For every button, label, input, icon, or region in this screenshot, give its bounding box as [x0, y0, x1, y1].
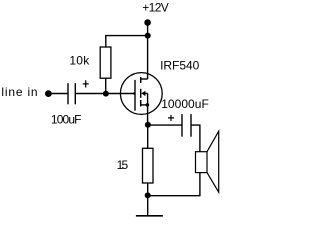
- speaker LS1 cone: [207, 131, 219, 192]
- Q1 gate bar: [134, 80, 136, 111]
- resistor R1 10k body: [100, 47, 111, 78]
- svg-text:line in: line in: [1, 85, 37, 99]
- Q1 drain stub: [141, 78, 148, 80]
- Q1 source-body junction dot: [146, 103, 150, 107]
- junction rail node: [145, 33, 151, 39]
- wire R1 bottom to gate node: [105, 78, 107, 93]
- junction gate node: [103, 91, 109, 97]
- junction output node: [145, 122, 151, 128]
- junction ground node: [145, 192, 151, 198]
- speaker LS1 box: [196, 152, 208, 173]
- svg-text:+12V: +12V: [142, 0, 169, 14]
- svg-text:10000uF: 10000uF: [161, 97, 209, 111]
- input terminal dot: [45, 90, 52, 97]
- Q1 body to source link: [147, 93, 149, 105]
- Q1 channel segment source: [140, 100, 142, 107]
- svg-text:IRF540: IRF540: [160, 59, 200, 73]
- Q1 body arrow: [141, 91, 145, 96]
- capacitor C2 left plate: [181, 114, 183, 137]
- wire drain from rail: [147, 36, 149, 79]
- wire R2 to ground node: [147, 183, 149, 195]
- wire source down to output node: [147, 105, 149, 125]
- resistor R2 15 body: [143, 148, 154, 183]
- supply terminal dot: [144, 19, 151, 26]
- wire ground stem: [147, 195, 149, 215]
- transistor Q1 IRF540 body circle: [120, 73, 162, 115]
- wire output node to R2: [147, 125, 149, 148]
- ground bar: [136, 215, 163, 217]
- wire output node to C2: [148, 124, 182, 126]
- wire rail corner down to R1: [105, 35, 107, 47]
- Q1 gate arrowhead: [132, 92, 135, 96]
- Q1 body lead: [145, 92, 148, 94]
- wire speaker bottom return: [148, 173, 200, 196]
- Q1 channel segment body: [140, 89, 142, 98]
- svg-text:100uF: 100uF: [51, 113, 82, 127]
- svg-text:15: 15: [117, 158, 129, 172]
- capacitor C2 right plate: [190, 114, 192, 137]
- wire C1 to gate: [75, 93, 134, 95]
- C2 polarity plus: [168, 115, 174, 121]
- capacitor C1 right plate: [74, 83, 76, 104]
- Q1 source stub: [141, 104, 148, 106]
- wire input terminal to C1: [48, 93, 67, 95]
- svg-text:10k: 10k: [69, 54, 90, 68]
- wire supply terminal to rail junction: [147, 23, 149, 36]
- wire C2 to speaker top: [191, 125, 200, 152]
- Q1 channel segment drain: [140, 77, 142, 83]
- capacitor C1 left plate: [67, 83, 69, 104]
- wire rail horizontal: [106, 35, 148, 37]
- C1 polarity plus: [83, 80, 89, 87]
